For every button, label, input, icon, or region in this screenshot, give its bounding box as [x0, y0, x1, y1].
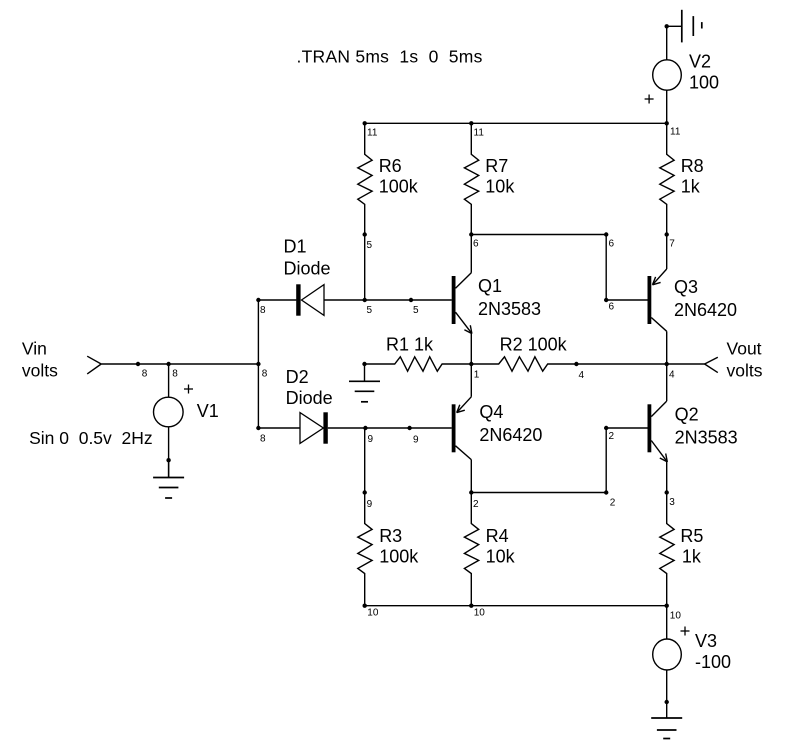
junction dot node 11 left: [363, 121, 367, 125]
svg-text:8: 8: [262, 369, 268, 380]
junction dot node 6 (R7 bottom): [469, 232, 473, 236]
node 8 label (c): [262, 369, 268, 380]
ground (V3): [651, 718, 682, 739]
svg-text:5: 5: [413, 305, 419, 316]
svg-text:11: 11: [670, 127, 681, 138]
svg-text:volts: volts: [727, 361, 763, 381]
wire node 8 to D1 anode-bar: [258, 299, 296, 301]
svg-text:2N6420: 2N6420: [674, 300, 737, 320]
svg-text:8: 8: [172, 369, 178, 380]
Q4 type 2N6420: [479, 425, 542, 445]
wire Q2 base: [606, 427, 647, 429]
Q1 label: [478, 276, 502, 296]
svg-text:V3: V3: [695, 631, 717, 651]
junction dot node 9 (Q4 base wire): [407, 426, 411, 430]
node 5 label (R6 bottom): [367, 240, 373, 251]
wire V2 bottom lead to node 11: [666, 90, 668, 123]
junction dot node 2 (Q2 base): [604, 426, 608, 430]
node 6 label (R7 bottom): [473, 239, 479, 250]
junction dot node 8 (D1): [256, 298, 260, 302]
svg-text:6: 6: [609, 302, 615, 313]
Vin label: [22, 339, 47, 359]
V1 plus sign: [184, 385, 193, 394]
svg-text:100k: 100k: [379, 547, 419, 567]
node 10 label (mid): [474, 608, 486, 619]
svg-text:2N6420: 2N6420: [479, 425, 542, 445]
svg-text:R6: R6: [379, 156, 402, 176]
ground (V1): [153, 460, 184, 498]
svg-text:R2 100k: R2 100k: [500, 334, 568, 354]
node 6 label (Q3 base): [609, 302, 615, 313]
wire V3 top lead: [666, 606, 668, 639]
wire node 6 horizontal: [471, 234, 606, 236]
junction dot node 11 mid: [469, 121, 473, 125]
junction dot V1 ground: [166, 458, 170, 462]
node 8 label (b): [172, 369, 178, 380]
R5 label: [680, 526, 703, 546]
wire Q2 emitter to node 3: [666, 462, 668, 493]
svg-text:5: 5: [367, 240, 373, 251]
svg-text:6: 6: [473, 239, 479, 250]
wire node 4 to Vout terminal: [667, 363, 705, 365]
svg-text:-100: -100: [695, 652, 731, 672]
node 11 label (right): [670, 127, 681, 138]
svg-text:4: 4: [579, 370, 585, 381]
node 9 label (Q4 base): [413, 434, 419, 445]
svg-text:9: 9: [368, 434, 374, 445]
wire node 6 vertical to Q3 base: [605, 235, 607, 301]
Vin units volts: [22, 361, 58, 381]
R1 label and value: [386, 334, 434, 354]
svg-text:R3: R3: [379, 526, 402, 546]
V3 plus sign: [681, 627, 690, 636]
transistor Q1 collector wire: [470, 235, 472, 273]
junction dot node 10 left: [363, 604, 367, 608]
svg-text:3: 3: [669, 497, 675, 508]
ground (R1 left): [349, 364, 380, 402]
ground (rotated, V2 positive rail): [667, 10, 702, 43]
V2 value 100: [689, 72, 719, 92]
D1 type label Diode: [284, 259, 331, 279]
Q4 label: [479, 402, 503, 422]
wire Q3 collector to node 4: [666, 331, 668, 364]
junction dot node 10 right: [665, 604, 669, 608]
wire D2 line down to R3: [364, 428, 366, 493]
junction dot node 7 (R8 bottom): [665, 232, 669, 236]
junction dot node 8 (D2): [256, 426, 260, 430]
node 2 label (Q2 base): [609, 431, 615, 442]
R6 value 100k: [379, 176, 419, 196]
junction dot node 8 (Vin line a): [136, 362, 140, 366]
wire Q4 collector to node 2: [470, 460, 472, 493]
node 8 label (D1): [260, 305, 266, 316]
resistor R3: [358, 493, 372, 606]
svg-text:100: 100: [689, 72, 719, 92]
wire V1 top lead: [168, 364, 170, 397]
svg-text:8: 8: [142, 369, 148, 380]
Vout terminal: [705, 357, 718, 372]
wire V2 top lead: [666, 26, 668, 60]
junction dot node 3: [665, 490, 669, 494]
R6 label: [379, 156, 402, 176]
svg-text:11: 11: [367, 128, 378, 139]
wire node 2 vertical: [605, 428, 607, 493]
svg-text:D2: D2: [286, 367, 309, 387]
svg-text:1: 1: [474, 369, 480, 380]
analysis directive text: [297, 46, 483, 66]
R8 value 1k: [681, 176, 701, 196]
svg-text:10: 10: [367, 608, 379, 619]
resistor R1: [365, 357, 472, 371]
diode D1: [296, 284, 324, 315]
svg-text:R1 1k: R1 1k: [386, 334, 434, 354]
node 10 label (right): [670, 610, 682, 621]
Q1 type 2N3583: [478, 299, 541, 319]
junction dot node 11 right: [665, 121, 669, 125]
junction dot node 9 (R3 top): [363, 490, 367, 494]
node 11 label (left): [367, 128, 378, 139]
svg-text:.TRAN 5ms 1s 0 5ms: .TRAN 5ms 1s 0 5ms: [297, 46, 483, 66]
svg-text:Q4: Q4: [479, 402, 503, 422]
junction dot node 2 (left): [469, 490, 473, 494]
junction dot node 4 (R2 right): [574, 362, 578, 366]
wire node 8 vertical D1-D2: [257, 300, 259, 428]
R2 label and value: [500, 334, 568, 354]
wire bottom bus node 10: [365, 605, 667, 607]
junction dot V3 ground: [665, 700, 669, 704]
junction dot node 6 at Q3 base corner: [604, 298, 608, 302]
D2 type label Diode: [286, 388, 333, 408]
resistor R6: [358, 123, 372, 234]
svg-text:2N3583: 2N3583: [478, 299, 541, 319]
wire Q3 emitter from node 7: [666, 235, 668, 270]
svg-text:R4: R4: [486, 526, 509, 546]
D1 label: [284, 236, 307, 256]
voltage source V3: [653, 639, 682, 670]
svg-text:7: 7: [669, 239, 675, 250]
wire Vin to node 8: [101, 363, 258, 365]
R3 label: [379, 526, 402, 546]
V2 plus sign: [645, 95, 654, 104]
svg-text:D1: D1: [284, 236, 307, 256]
transistor Q2: [648, 401, 668, 462]
Q2 type 2N3583: [675, 427, 738, 447]
Vin terminal: [87, 356, 101, 374]
Q3 type 2N6420: [674, 300, 737, 320]
resistor R4: [464, 493, 478, 606]
svg-text:8: 8: [260, 305, 266, 316]
wire Q2 collector from node 4: [666, 364, 668, 401]
wire node 8 to D2 anode: [258, 427, 300, 429]
resistor R5: [660, 493, 674, 606]
node 3 label: [669, 497, 675, 508]
resistor R8: [660, 123, 674, 234]
svg-text:Vout: Vout: [727, 339, 762, 359]
wire node 2 horizontal: [471, 492, 606, 494]
node 6 label (corner): [609, 239, 615, 250]
svg-text:Diode: Diode: [284, 259, 331, 279]
V2 label: [689, 52, 711, 72]
svg-text:8: 8: [260, 433, 266, 444]
svg-text:4: 4: [669, 369, 675, 380]
V3 label: [695, 631, 717, 651]
V3 value -100: [695, 652, 731, 672]
svg-text:11: 11: [474, 128, 485, 139]
junction dot node 8 (junction): [256, 362, 260, 366]
svg-text:100k: 100k: [379, 176, 419, 196]
junction dot node 6 (corner): [604, 232, 608, 236]
svg-text:R8: R8: [681, 156, 704, 176]
svg-text:2N3583: 2N3583: [675, 427, 738, 447]
D2 label: [286, 367, 309, 387]
Q2 label: [675, 404, 699, 424]
junction dot node 4 (output): [665, 362, 669, 366]
wire R2 to node 4: [576, 363, 666, 365]
wire Q4 emitter from node 1: [470, 364, 472, 397]
svg-text:1k: 1k: [682, 547, 702, 567]
svg-text:R7: R7: [485, 156, 508, 176]
svg-text:Diode: Diode: [286, 388, 333, 408]
node 4 label (R2 right): [579, 370, 585, 381]
junction dot R1 ground: [362, 362, 366, 366]
transistor Q1: [452, 273, 472, 334]
Vout units volts: [727, 361, 763, 381]
svg-text:9: 9: [367, 499, 373, 510]
wire Q1 emitter to node 1: [470, 334, 472, 364]
diode D2: [300, 412, 328, 443]
node 4 label (output): [669, 369, 675, 380]
junction dot node 9 (D2 cathode): [363, 426, 367, 430]
resistor R7: [464, 123, 478, 234]
svg-text:10: 10: [670, 610, 682, 621]
R7 value 10k: [485, 176, 515, 196]
junction dot node 5 (Q1 base wire): [409, 298, 413, 302]
svg-text:volts: volts: [22, 361, 58, 381]
svg-text:9: 9: [413, 434, 419, 445]
V1 label: [197, 401, 219, 421]
svg-text:Q3: Q3: [674, 277, 698, 297]
svg-text:V2: V2: [689, 52, 711, 72]
V1 source spec Sin 0 0.5v 2Hz: [29, 428, 153, 448]
wire top bus node 11: [365, 122, 667, 124]
wire D1 to Q1 base: [324, 299, 452, 301]
voltage source V2: [653, 60, 682, 90]
node 10 label (left): [367, 608, 379, 619]
junction dot at V2 top: [665, 24, 669, 28]
svg-text:10: 10: [474, 608, 486, 619]
R4 value 10k: [486, 547, 516, 567]
svg-text:Q2: Q2: [675, 404, 699, 424]
node 5 label (Q1 base): [413, 305, 419, 316]
voltage source V1: [154, 397, 184, 427]
R5 value 1k: [682, 547, 702, 567]
svg-text:6: 6: [609, 239, 615, 250]
node 5 label (D1 line left): [367, 305, 373, 316]
node 2 label (left): [473, 499, 479, 510]
node 7 label: [669, 239, 675, 250]
wire V3 bottom lead: [666, 670, 668, 718]
node 8 label (D2): [260, 433, 266, 444]
svg-text:1k: 1k: [681, 176, 701, 196]
svg-text:Sin 0 0.5v 2Hz: Sin 0 0.5v 2Hz: [29, 428, 153, 448]
Q3 label: [674, 277, 698, 297]
svg-text:Vin: Vin: [22, 339, 47, 359]
junction dot node 5 (D1 cathode): [363, 298, 367, 302]
R4 label: [486, 526, 509, 546]
svg-text:V1: V1: [197, 401, 219, 421]
node 9 label (R3 top): [367, 499, 373, 510]
svg-text:R5: R5: [680, 526, 703, 546]
svg-text:Q1: Q1: [478, 276, 502, 296]
svg-text:2: 2: [610, 498, 616, 509]
R7 label: [485, 156, 508, 176]
svg-text:10k: 10k: [486, 547, 516, 567]
svg-text:5: 5: [367, 305, 373, 316]
transistor Q4: [452, 397, 472, 460]
node 2 label (right): [610, 498, 616, 509]
Vout label: [727, 339, 762, 359]
node 1 label: [474, 369, 480, 380]
junction dot node 1: [469, 362, 473, 366]
resistor R2: [471, 357, 576, 371]
R3 value 100k: [379, 547, 419, 567]
junction dot node 2 (right): [604, 490, 608, 494]
wire Q3 base: [606, 299, 647, 301]
R8 label: [681, 156, 704, 176]
node 8 label (a): [142, 369, 148, 380]
junction dot node 10 mid: [469, 604, 473, 608]
svg-text:10k: 10k: [485, 176, 515, 196]
junction dot node 5 (R6 bottom): [363, 232, 367, 236]
wire V1 bottom lead: [168, 427, 170, 478]
wire D2 cathode to Q4 base: [328, 427, 452, 429]
junction dot node 8 (V1 tap): [166, 362, 170, 366]
node 11 label (mid): [474, 128, 485, 139]
svg-text:2: 2: [609, 431, 615, 442]
svg-text:2: 2: [473, 499, 479, 510]
node 9 label (D2 line): [368, 434, 374, 445]
wire R6 bottom to D1 line: [364, 235, 366, 301]
transistor Q3: [648, 269, 667, 331]
